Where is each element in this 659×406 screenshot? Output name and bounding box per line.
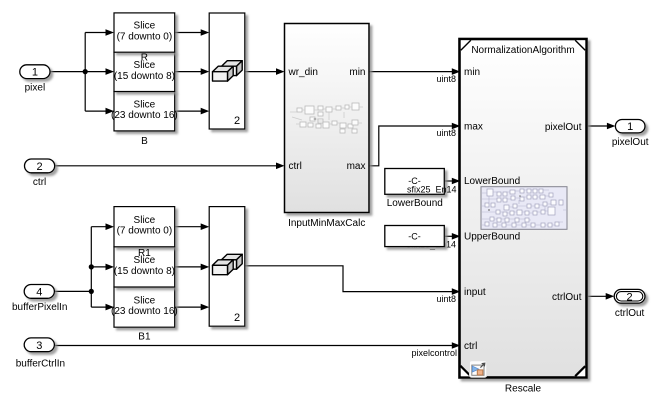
svg-text:Slice: Slice	[134, 99, 156, 110]
arrow into outport 2	[606, 293, 615, 300]
wire bufferCtrlIn to Rescale ctrl	[55, 345, 457, 347]
svg-text:input: input	[464, 287, 486, 298]
concat block B (2 inputs)	[209, 13, 245, 129]
svg-text:Slice: Slice	[134, 295, 156, 306]
svg-text:InputMinMaxCalc: InputMinMaxCalc	[288, 218, 365, 229]
svg-text:1: 1	[627, 121, 633, 133]
svg-text:4: 4	[36, 286, 42, 298]
svg-text:pixelOut: pixelOut	[545, 122, 582, 133]
svg-text:sfix25_En14: sfix25_En14	[407, 184, 457, 194]
svg-text:ctrlOut: ctrlOut	[615, 308, 645, 319]
outport 2 ctrlOut (bus, double outline)	[614, 289, 645, 318]
svg-text:pixel: pixel	[25, 83, 46, 94]
svg-text:max: max	[347, 161, 366, 172]
slice block B1 bottom 23 downto 16	[114, 287, 175, 327]
svg-text:Rescale: Rescale	[505, 384, 542, 395]
arrow into ctrl of InputMinMaxCalc	[276, 163, 285, 170]
subsystem InputMinMaxCalc	[285, 24, 370, 230]
arrows into B slices	[106, 29, 115, 114]
svg-text:(23 downto 16): (23 downto 16)	[111, 306, 178, 317]
svg-text:(15 downto 8): (15 downto 8)	[114, 266, 175, 277]
svg-text:LowerBound: LowerBound	[387, 198, 443, 209]
subsystem Rescale (NormalizationAlgorithm)	[460, 39, 587, 395]
svg-text:min: min	[349, 67, 365, 78]
svg-text:uint8: uint8	[436, 74, 456, 84]
svg-text:Slice: Slice	[134, 215, 156, 226]
slice block B bottom 23 downto 16	[114, 92, 175, 131]
svg-text:Slice: Slice	[134, 21, 156, 32]
svg-text:ctrl: ctrl	[464, 341, 477, 352]
svg-text:uint8: uint8	[436, 294, 456, 304]
svg-text:LowerBound: LowerBound	[464, 176, 520, 187]
svg-text:NormalizationAlgorithm: NormalizationAlgorithm	[471, 45, 574, 56]
svg-text:pixelOut: pixelOut	[612, 137, 649, 148]
wire UpperBound const to Rescale	[444, 235, 456, 237]
svg-text:3: 3	[36, 340, 42, 352]
inport 2 ctrl	[25, 159, 55, 188]
slice block B middle (15 downto 8), name R	[114, 52, 175, 91]
slice B middle texts	[114, 53, 175, 82]
node junction bufferPixelIn	[89, 289, 94, 294]
svg-text:UpperBound: UpperBound	[464, 231, 520, 242]
svg-text:ctrl: ctrl	[33, 177, 46, 188]
svg-text:2: 2	[37, 161, 43, 173]
outport 1 pixelOut	[612, 120, 649, 149]
arrow into wr_din	[276, 68, 285, 75]
svg-text:2: 2	[234, 312, 240, 324]
svg-text:2: 2	[234, 115, 240, 127]
arrows into B1 slices	[106, 223, 115, 310]
inport 4 bufferPixelIn	[12, 285, 67, 313]
svg-text:bufferCtrlIn: bufferCtrlIn	[16, 358, 65, 369]
wire slice outputs B to concat	[175, 33, 206, 112]
slice block B1 middle (15 downto 8), name R1	[114, 247, 175, 287]
slice B bottom texts	[111, 99, 178, 147]
slice B1 bottom texts	[111, 295, 178, 342]
constant UpperBound (label under block)	[385, 226, 456, 250]
svg-text:uint8: uint8	[436, 128, 456, 138]
concat block B1 (2 inputs)	[209, 207, 245, 327]
wire min to Rescale	[369, 71, 456, 73]
node junction branch B1	[89, 264, 94, 269]
svg-text:wr_din: wr_din	[288, 67, 318, 78]
svg-text:-C-: -C-	[408, 232, 421, 242]
svg-text:2: 2	[627, 291, 633, 303]
Rescale model badge icon	[470, 361, 487, 377]
svg-text:pixelcontrol: pixelcontrol	[411, 348, 457, 358]
svg-text:max: max	[464, 122, 483, 133]
InputMinMaxCalc preview thumbnail	[290, 103, 363, 133]
svg-text:min: min	[464, 67, 480, 78]
inport 3 bufferCtrlIn	[16, 338, 65, 369]
arrows into Rescale left ports	[452, 68, 461, 349]
Rescale preview thumbnail	[481, 187, 567, 230]
wire concat B to wr_din	[245, 71, 281, 73]
svg-text:B1: B1	[138, 332, 151, 343]
slice B1 middle texts	[114, 248, 175, 277]
svg-text:B: B	[141, 136, 148, 147]
svg-text:(7 downto 0): (7 downto 0)	[117, 226, 173, 237]
node junction pixel	[83, 69, 88, 74]
constant LowerBound	[385, 169, 457, 210]
wire pixel to B slices	[50, 33, 111, 112]
wire Rescale pixelOut to outport 1	[588, 125, 612, 127]
svg-text:Slice: Slice	[134, 255, 156, 266]
slice block B1 top (7 downto 0)	[114, 207, 175, 247]
svg-text:bufferPixelIn: bufferPixelIn	[12, 302, 67, 313]
wire concat B1 to Rescale input	[245, 266, 456, 292]
wire slice outputs B1 to concat	[175, 227, 206, 307]
arrows into concat B1	[201, 223, 210, 310]
svg-text:(15 downto 8): (15 downto 8)	[114, 71, 175, 82]
arrow into outport 1	[607, 123, 616, 130]
svg-text:(23 downto 16): (23 downto 16)	[111, 110, 178, 121]
wire LowerBound const to Rescale	[444, 180, 456, 182]
wire ctrl port2 to InputMinMaxCalc	[55, 165, 281, 167]
svg-text:ctrl: ctrl	[289, 161, 302, 172]
svg-text:1: 1	[32, 67, 38, 79]
inport 1 pixel	[20, 65, 50, 94]
wire max to Rescale	[369, 126, 456, 166]
wire bufferPixelIn to B1 slices	[55, 227, 111, 307]
svg-text:Slice: Slice	[134, 60, 156, 71]
svg-text:ctrlOut: ctrlOut	[552, 292, 582, 303]
svg-text:(7 downto 0): (7 downto 0)	[117, 32, 173, 43]
arrows into concat B	[201, 29, 210, 114]
slice block B top (7 downto 0)	[114, 13, 175, 52]
wire Rescale ctrlOut to outport 2	[588, 295, 611, 297]
